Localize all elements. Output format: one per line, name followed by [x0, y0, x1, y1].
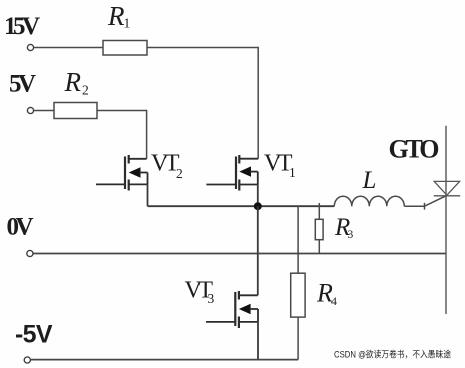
svg-text:R: R	[64, 67, 82, 97]
gate diagonal to GTO cathode	[425, 196, 447, 206]
gate tick	[424, 203, 426, 210]
resistor R3	[318, 203, 320, 219]
svg-text:2: 2	[176, 166, 183, 181]
svg-text:2: 2	[82, 83, 89, 98]
wire L to GTO gate	[404, 205, 424, 207]
wire corner down to VT1 drain	[257, 47, 259, 159]
resistor R2	[54, 103, 97, 119]
transistor VT2	[96, 155, 148, 191]
wire 0V rail	[34, 253, 447, 255]
junction dot	[254, 202, 262, 210]
terminal 5V	[27, 107, 33, 113]
wire R1 to corner	[147, 47, 258, 49]
svg-text:L: L	[362, 167, 377, 194]
svg-text:CSDN @欲读万卷书，不入愚昧途: CSDN @欲读万卷书，不入愚昧途	[334, 349, 451, 360]
resistor R4	[297, 206, 299, 273]
wire corner down to VT2 drain	[146, 110, 148, 159]
svg-text:1: 1	[124, 16, 131, 31]
GTO thyristor	[445, 126, 447, 314]
wire VT2 source down	[147, 184, 149, 206]
wire 15V to R1	[34, 47, 103, 49]
wire VT3 source down	[257, 322, 259, 360]
svg-text:1: 1	[289, 165, 296, 180]
inductor L	[334, 196, 404, 206]
svg-text:-5V: -5V	[15, 320, 53, 348]
wire 5V to R2	[34, 110, 54, 112]
wire VT1 source down to node	[257, 185, 259, 207]
wire R2 to corner	[97, 110, 147, 112]
svg-text:0V: 0V	[7, 213, 34, 240]
svg-text:R: R	[107, 1, 125, 31]
svg-text:4: 4	[331, 294, 337, 308]
terminal -5V	[24, 357, 30, 363]
svg-text:5V: 5V	[9, 71, 36, 98]
wire node down to VT3 drain	[257, 206, 259, 295]
svg-text:GTO: GTO	[389, 135, 439, 164]
svg-text:3: 3	[348, 229, 354, 241]
svg-text:3: 3	[208, 291, 215, 306]
terminal 0V	[27, 250, 33, 256]
transistor VT1	[206, 155, 258, 191]
wire -5V rail	[31, 359, 298, 361]
resistor R1	[103, 41, 147, 56]
transistor VT3	[206, 291, 258, 328]
node line (gate drive bus)	[148, 205, 335, 207]
terminal 15V	[27, 44, 33, 50]
svg-text:15V: 15V	[4, 13, 40, 40]
